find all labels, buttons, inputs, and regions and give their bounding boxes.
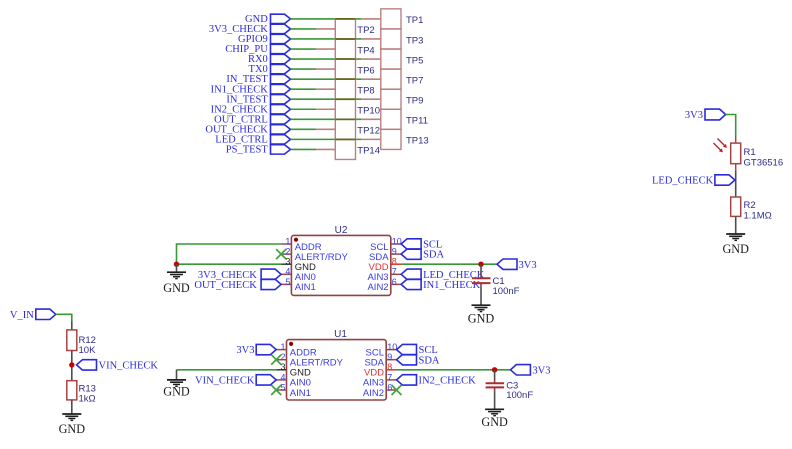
junction <box>478 262 483 267</box>
svg-text:OUT_CHECK: OUT_CHECK <box>194 280 257 291</box>
no-connect X on U2 pin 2 <box>276 249 286 259</box>
op-amp U1 body <box>287 340 387 400</box>
wire <box>291 118 362 120</box>
value label C3 <box>506 380 533 401</box>
wire <box>335 118 355 120</box>
wire <box>291 68 317 70</box>
svg-text:AIN2: AIN2 <box>363 388 384 399</box>
U1 pin 9 <box>386 359 396 361</box>
net label TX0 <box>249 64 291 75</box>
wire <box>291 58 362 60</box>
U2 pin 9 <box>391 253 401 255</box>
svg-text:GND: GND <box>163 385 190 399</box>
svg-text:4: 4 <box>285 267 290 277</box>
wire <box>494 390 496 409</box>
power flag 3V3 <box>236 344 276 356</box>
value label R13 <box>79 383 96 404</box>
no-connect X on U1 pin 5 <box>271 385 281 395</box>
U2 pin 10 <box>391 243 401 245</box>
net label 3V3_CHECK <box>198 269 281 281</box>
svg-text:TP1: TP1 <box>406 15 423 26</box>
net label IN1_CHECK <box>211 84 291 95</box>
wire <box>291 18 362 20</box>
junction <box>69 362 74 367</box>
net label LED_CHECK <box>652 175 735 187</box>
net label IN1_CHECK <box>401 279 481 291</box>
U1 pin 2 <box>276 359 286 361</box>
wire <box>291 28 317 30</box>
svg-text:5: 5 <box>280 382 285 392</box>
test point TP8 <box>316 79 375 99</box>
ground <box>485 408 504 410</box>
svg-text:VIN_CHECK: VIN_CHECK <box>195 376 255 387</box>
net label IN_TEST <box>226 74 290 85</box>
svg-text:SDA: SDA <box>423 250 444 261</box>
svg-text:6: 6 <box>387 382 392 392</box>
net label SDA <box>401 249 444 261</box>
U1 pin 5 <box>276 389 286 391</box>
wire <box>335 78 355 80</box>
svg-text:TP12: TP12 <box>357 126 380 137</box>
net label SDA <box>397 355 440 367</box>
value label R2 <box>744 200 772 221</box>
wire <box>335 58 355 60</box>
svg-text:3V3: 3V3 <box>532 365 550 376</box>
svg-text:GND: GND <box>468 311 495 325</box>
U2 pin 1 <box>281 243 291 245</box>
svg-text:1: 1 <box>280 342 285 352</box>
test point TP1 <box>361 9 423 29</box>
U2 pin 6 <box>391 283 401 285</box>
test point TP5 <box>361 49 423 69</box>
test point TP9 <box>361 89 423 109</box>
svg-text:8: 8 <box>392 257 397 267</box>
U2 pin 7 <box>391 273 401 275</box>
wire <box>177 263 282 265</box>
svg-text:TP13: TP13 <box>406 136 429 147</box>
net label GND <box>245 14 290 25</box>
wire <box>735 171 737 197</box>
wire <box>735 136 737 143</box>
value label C1 <box>493 276 520 297</box>
power flag 3V3 <box>497 259 537 271</box>
svg-text:7: 7 <box>392 267 397 277</box>
net label RX0 <box>248 54 291 65</box>
wire <box>335 138 355 140</box>
net label SCL <box>397 344 438 356</box>
wire <box>735 216 737 234</box>
svg-text:U1: U1 <box>334 329 347 340</box>
wire <box>177 369 277 371</box>
ground <box>62 413 81 415</box>
value label R12 <box>79 335 97 356</box>
wire <box>291 148 317 150</box>
net label LED_CHECK <box>401 269 485 281</box>
svg-text:9: 9 <box>392 247 397 257</box>
net label VIN_CHECK <box>195 375 276 387</box>
resistor R13 <box>67 381 77 400</box>
svg-text:TP4: TP4 <box>357 45 374 56</box>
svg-text:1.1MΩ: 1.1MΩ <box>744 210 772 221</box>
U2 pin 4 <box>281 273 291 275</box>
net label OUT_CTRL <box>214 114 290 125</box>
wire <box>291 138 362 140</box>
U1 pin 3 <box>276 369 286 371</box>
capacitor C3 <box>486 380 505 390</box>
net label IN2_CHECK <box>211 104 291 115</box>
svg-text:TP9: TP9 <box>406 96 423 107</box>
wire <box>291 98 362 100</box>
wire <box>291 48 317 50</box>
U2 pin 3 <box>281 263 291 265</box>
net label IN_TEST <box>226 94 290 105</box>
U1 pin 1 <box>276 349 286 351</box>
svg-text:6: 6 <box>392 277 397 287</box>
ground <box>163 264 190 295</box>
wire <box>335 38 355 40</box>
wire <box>291 88 317 90</box>
svg-text:10: 10 <box>392 236 402 246</box>
net label V_IN <box>10 309 56 321</box>
svg-text:AIN1: AIN1 <box>295 282 316 293</box>
test point TP13 <box>361 129 429 149</box>
svg-text:8: 8 <box>387 362 392 372</box>
svg-text:2: 2 <box>280 352 285 362</box>
wire <box>291 108 317 110</box>
svg-text:GND: GND <box>163 281 190 295</box>
wire <box>726 115 736 136</box>
U1 pin 8 <box>386 369 396 371</box>
svg-text:TP8: TP8 <box>357 85 374 96</box>
junction <box>492 367 497 372</box>
net label SCL <box>401 239 442 251</box>
svg-text:4: 4 <box>280 372 285 382</box>
U2 pin 2 <box>281 253 291 255</box>
test point TP11 <box>361 109 428 129</box>
svg-text:TP14: TP14 <box>357 146 380 157</box>
svg-text:7: 7 <box>387 372 392 382</box>
test point TP7 <box>361 69 423 89</box>
ground <box>163 370 190 399</box>
svg-text:1kΩ: 1kΩ <box>79 393 96 404</box>
resistor R12 <box>67 330 77 351</box>
test point TP10 <box>316 99 380 119</box>
net label GPIO9 <box>238 34 290 45</box>
svg-text:GND: GND <box>722 242 749 256</box>
net label IN2_CHECK <box>397 375 477 387</box>
wire <box>397 369 511 371</box>
svg-text:9: 9 <box>387 352 392 362</box>
wire <box>71 400 73 414</box>
svg-text:10: 10 <box>387 342 397 352</box>
svg-text:100nF: 100nF <box>506 390 533 401</box>
svg-text:3V3: 3V3 <box>519 260 537 271</box>
power flag 3V3 <box>510 365 550 377</box>
ground <box>472 304 491 306</box>
U1 pin 7 <box>386 379 396 381</box>
value label R1 <box>744 147 784 168</box>
U2 pin 8 <box>391 263 401 265</box>
svg-text:TP7: TP7 <box>406 75 423 86</box>
no-connect X on U1 pin 2 <box>271 355 281 365</box>
op-amp U2 body <box>291 235 390 295</box>
wire <box>335 18 355 20</box>
test point TP2 <box>316 19 375 39</box>
wire <box>71 322 73 330</box>
wire <box>401 263 497 265</box>
ground <box>726 233 745 235</box>
svg-text:TP3: TP3 <box>406 35 423 46</box>
svg-text:TP11: TP11 <box>406 116 428 127</box>
test point TP6 <box>316 59 375 79</box>
U1 pin 10 <box>386 349 396 351</box>
wire <box>480 264 482 275</box>
wire <box>291 38 362 40</box>
svg-text:GND: GND <box>59 422 86 436</box>
test point TP12 <box>316 119 380 139</box>
svg-text:AIN2: AIN2 <box>367 282 388 293</box>
wire <box>291 78 362 80</box>
svg-text:2: 2 <box>285 247 290 257</box>
net label LED_CTRL <box>215 134 290 145</box>
wire <box>71 351 73 381</box>
svg-text:GT36516: GT36516 <box>744 157 784 168</box>
svg-text:GND: GND <box>481 415 508 429</box>
svg-text:IN1_CHECK: IN1_CHECK <box>423 280 481 291</box>
junction <box>174 262 179 267</box>
net label PS_TEST <box>226 145 291 156</box>
wire <box>177 244 282 264</box>
test point TP14 <box>316 139 380 159</box>
photoresistor R1 <box>714 139 741 164</box>
svg-text:AIN1: AIN1 <box>290 388 311 399</box>
svg-text:IN2_CHECK: IN2_CHECK <box>419 376 477 387</box>
svg-text:VIN_CHECK: VIN_CHECK <box>99 361 159 372</box>
U1 pin 4 <box>276 379 286 381</box>
svg-text:TP5: TP5 <box>406 55 423 66</box>
wire <box>56 314 72 321</box>
svg-text:5: 5 <box>285 277 290 287</box>
svg-text:V_IN: V_IN <box>10 310 34 321</box>
svg-text:TP10: TP10 <box>357 106 380 117</box>
svg-text:LED_CHECK: LED_CHECK <box>652 176 714 187</box>
net label OUT_CHECK <box>205 124 290 135</box>
wire <box>335 98 355 100</box>
U1 pin 6 <box>386 389 396 391</box>
wire <box>480 286 482 305</box>
svg-text:SDA: SDA <box>419 355 440 366</box>
test point TP4 <box>316 39 375 59</box>
net label VIN_CHECK <box>77 360 159 372</box>
U2 pin-1 marker <box>294 238 298 242</box>
svg-text:10K: 10K <box>79 345 97 356</box>
svg-text:U2: U2 <box>335 225 348 236</box>
svg-text:TP2: TP2 <box>357 25 374 36</box>
svg-text:TP6: TP6 <box>357 65 374 76</box>
svg-text:3V3: 3V3 <box>685 110 703 121</box>
capacitor C1 <box>472 276 491 287</box>
wire <box>735 164 737 171</box>
power flag 3V3 <box>685 109 726 121</box>
resistor R2 <box>731 197 741 216</box>
U2 pin 5 <box>281 283 291 285</box>
svg-text:3V3: 3V3 <box>236 345 254 356</box>
net label OUT_CHECK <box>194 279 281 291</box>
U1 pin-1 marker <box>289 342 293 346</box>
svg-text:100nF: 100nF <box>493 286 520 297</box>
no-connect X on U1 pin 6 <box>392 385 402 395</box>
net label CHIP_PU <box>225 44 290 55</box>
test point TP3 <box>361 29 423 49</box>
wire <box>291 128 317 130</box>
net label 3V3_CHECK <box>209 24 291 35</box>
wire <box>494 370 496 380</box>
svg-text:1: 1 <box>285 236 290 246</box>
svg-text:PS_TEST: PS_TEST <box>226 145 269 156</box>
